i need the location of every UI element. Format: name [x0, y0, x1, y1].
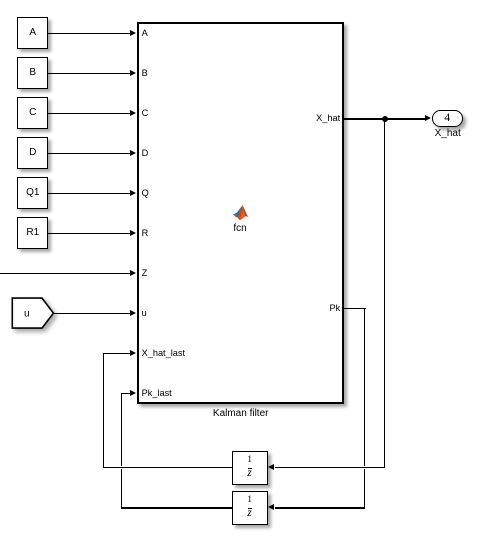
wire from constant B to port B	[47, 73, 130, 74]
wire delay2 up (lower segment after line hop)	[121, 469, 122, 509]
wire delay1 into X_hat_last	[103, 353, 131, 354]
unit delay 1 denominator z	[247, 469, 251, 478]
port label X_hat (output)	[316, 113, 340, 123]
branch wire down from junction	[384, 118, 385, 468]
wire from constant D to port D	[47, 153, 130, 154]
label Kalman filter	[213, 408, 269, 419]
wire delay2 into Pk_last	[121, 393, 130, 394]
arrowhead into outport oval	[425, 115, 431, 121]
port label Z	[142, 268, 148, 278]
wire Pk down (upper segment)	[364, 308, 365, 466]
unit delay 1 numerator	[247, 456, 252, 465]
port label Pk_last	[142, 388, 172, 398]
constant block D	[17, 137, 48, 168]
arrowhead into port B	[130, 70, 136, 76]
wire Pk down (lower segment after line hop)	[364, 469, 365, 509]
wire from inport u to port u	[52, 313, 130, 314]
constant block A	[17, 17, 48, 48]
arrowhead into port Z	[130, 270, 136, 276]
arrowhead into port Q	[130, 190, 136, 196]
port label Q	[142, 188, 149, 198]
wire from constant A to port A	[47, 33, 130, 34]
wire from constant Q1 to port Q	[47, 193, 130, 194]
wire X_hat output to junction and outport	[344, 118, 425, 119]
junction dot	[382, 116, 388, 122]
port label A	[142, 28, 148, 38]
arrowhead into port A	[130, 30, 136, 36]
label X_hat under outport	[435, 128, 461, 139]
arrowhead into port Pk_last	[130, 390, 136, 396]
wire Pk output right	[344, 308, 366, 309]
port label C	[142, 108, 149, 118]
unit delay block 2	[232, 491, 268, 525]
port label X_hat_last	[142, 348, 185, 358]
arrowhead into port D	[130, 150, 136, 156]
wire delay1 up	[103, 353, 104, 468]
unit delay 1 fraction bar	[248, 468, 252, 469]
constant block Q1	[17, 177, 48, 208]
wire delay2 up (upper segment)	[121, 393, 122, 466]
arrowhead into port u	[130, 310, 136, 316]
arrowhead into port C	[130, 110, 136, 116]
port label B	[142, 68, 148, 78]
constant block R1	[17, 217, 48, 248]
port label D	[142, 148, 149, 158]
outport oval 4	[432, 110, 463, 127]
port label Pk (output)	[329, 303, 340, 313]
branch wire left into delay1	[275, 467, 385, 468]
arrowhead into delay2	[268, 504, 274, 510]
wire delay2 output left	[121, 507, 232, 508]
unit delay block 1	[232, 451, 268, 485]
MATLAB function logo	[232, 205, 249, 221]
constant block B	[17, 57, 48, 88]
arrowhead into delay1	[268, 464, 274, 470]
port label u	[142, 308, 147, 318]
inport block u (pentagon)	[11, 297, 55, 331]
arrowhead into port R	[130, 230, 136, 236]
unit delay 2 denominator z	[247, 509, 251, 518]
wire delay1 output left	[103, 467, 232, 468]
arrowhead into port X_hat_last	[130, 350, 136, 356]
wire Pk left into delay2	[275, 507, 365, 508]
wire from constant R1 to port R	[47, 233, 130, 234]
unit delay 2 numerator	[247, 496, 252, 505]
svg-text:u: u	[24, 308, 30, 319]
unit delay 2 fraction bar	[248, 508, 252, 509]
wire from constant C to port C	[47, 113, 130, 114]
Kalman filter subsystem block	[137, 22, 345, 404]
fcn label	[233, 223, 246, 234]
wire Z from left edge to port Z	[0, 273, 130, 274]
port label R	[142, 228, 149, 238]
constant block C	[17, 97, 48, 128]
